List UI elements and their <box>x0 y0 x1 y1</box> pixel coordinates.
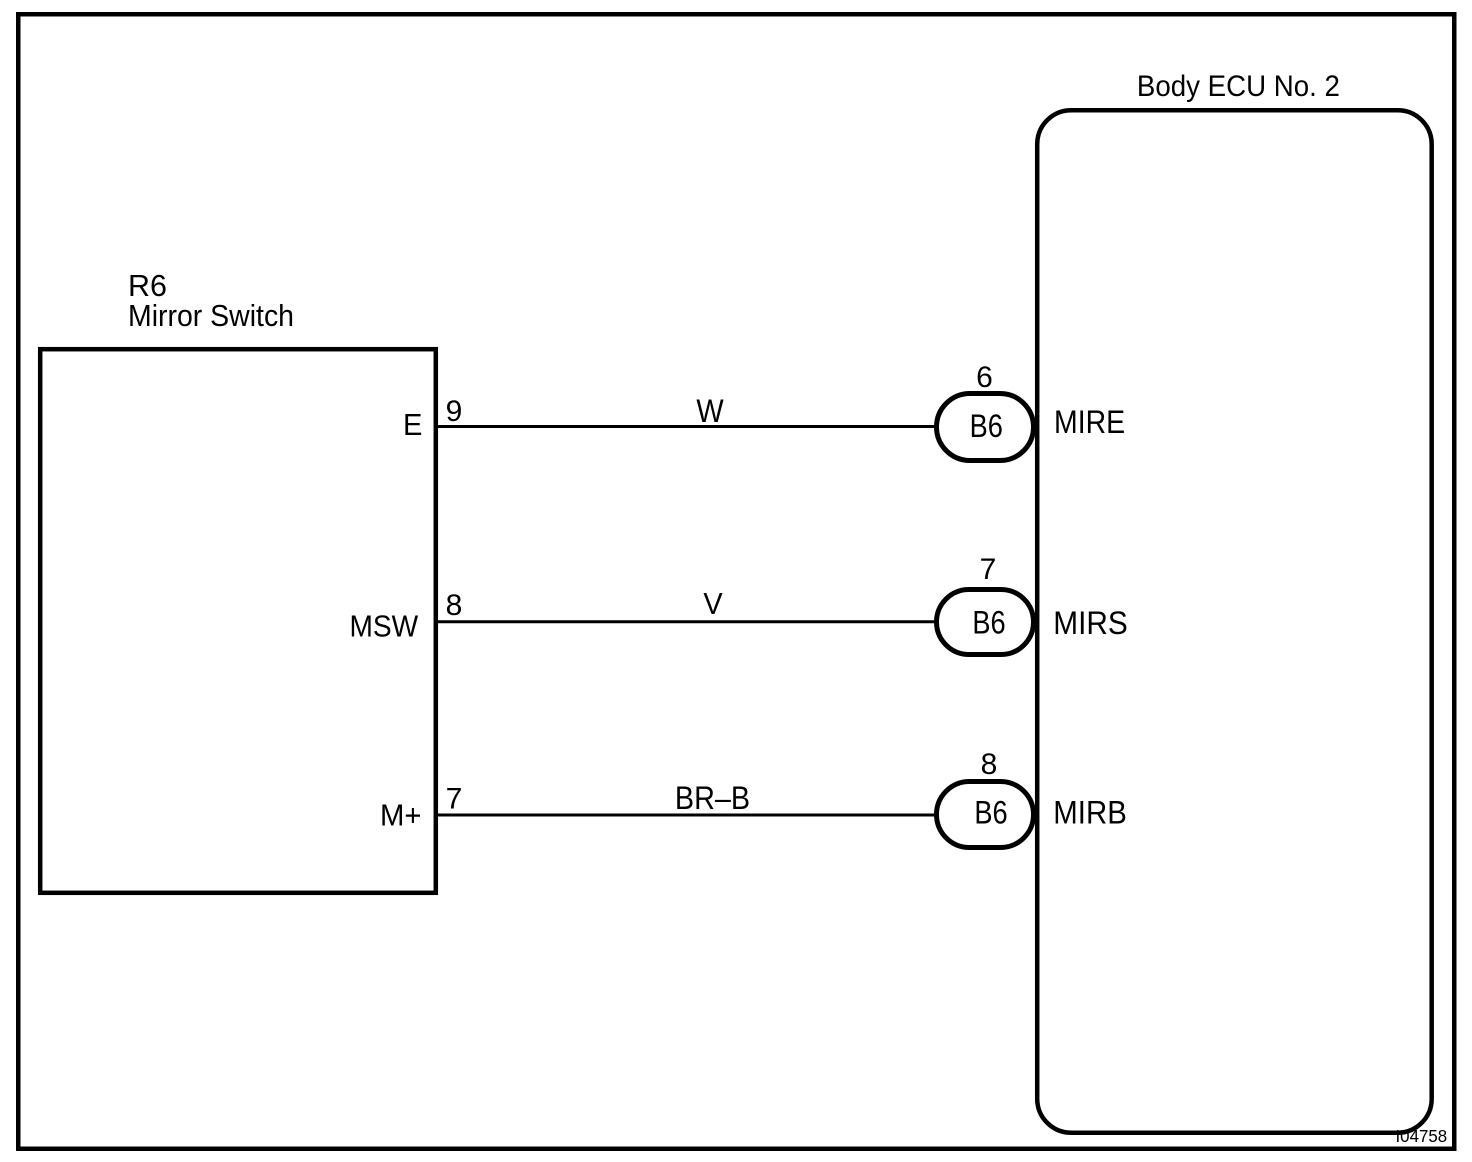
svg-text:E: E <box>403 407 422 442</box>
svg-text:V: V <box>703 586 723 621</box>
svg-text:B6: B6 <box>974 794 1007 830</box>
svg-text:B6: B6 <box>970 408 1003 444</box>
svg-text:7: 7 <box>446 783 463 816</box>
svg-text:Body ECU No. 2: Body ECU No. 2 <box>1137 70 1340 103</box>
svg-text:MSW: MSW <box>350 609 419 644</box>
svg-text:Mirror Switch: Mirror Switch <box>128 298 294 333</box>
svg-text:MIRE: MIRE <box>1054 404 1125 440</box>
svg-text:M+: M+ <box>380 798 422 833</box>
svg-text:6: 6 <box>976 361 993 394</box>
svg-text:8: 8 <box>446 589 463 622</box>
svg-text:W: W <box>696 393 724 429</box>
svg-text:MIRB: MIRB <box>1053 794 1127 830</box>
svg-text:9: 9 <box>446 395 463 428</box>
svg-text:7: 7 <box>980 553 997 586</box>
svg-text:8: 8 <box>981 748 998 781</box>
svg-text:I04758: I04758 <box>1396 1126 1448 1146</box>
svg-text:B6: B6 <box>972 604 1005 640</box>
svg-text:MIRS: MIRS <box>1053 605 1128 641</box>
svg-text:BR–B: BR–B <box>675 780 750 816</box>
